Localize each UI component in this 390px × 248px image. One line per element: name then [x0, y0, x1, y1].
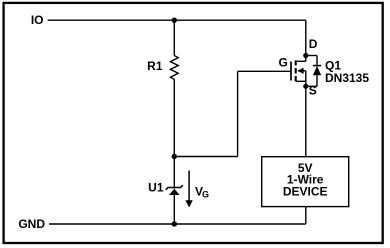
junction dot GND/U1: [172, 221, 177, 226]
body diode cathode lead: [316, 56, 318, 66]
svg-text:G: G: [279, 56, 288, 70]
substrate arrow line: [298, 70, 306, 72]
substrate arrowhead: [297, 68, 303, 74]
body diode branch bottom wire: [306, 85, 317, 87]
drain internal connection: [296, 60, 306, 62]
svg-text:S: S: [309, 84, 317, 98]
node D dot: [303, 53, 308, 58]
wire gate to node: [174, 156, 237, 158]
VG arrow line: [188, 171, 190, 202]
wire drain lead from IO rail: [305, 20, 307, 61]
svg-text:D: D: [309, 37, 318, 51]
junction dot gate node: [172, 154, 177, 159]
zener U1 top lead: [173, 157, 175, 189]
zener U1 cathode bar: [166, 185, 183, 190]
body diode anode lead: [316, 75, 318, 86]
wire GND rail: [49, 223, 306, 225]
svg-text:G: G: [202, 189, 209, 199]
wire source to device box: [305, 86, 307, 156]
channel segment bottom: [295, 76, 297, 81]
svg-text:R1: R1: [147, 59, 163, 73]
VG arrowhead: [185, 200, 192, 207]
zener U1 bottom lead: [173, 195, 175, 224]
resistor R1: [170, 56, 178, 80]
body diode triangle: [313, 66, 321, 75]
5V 1-Wire DEVICE box: [262, 157, 349, 207]
wire gate lead: [238, 70, 291, 72]
channel segment top: [295, 60, 297, 65]
wire R1 top lead: [173, 20, 175, 55]
body diode cathode bar: [313, 65, 321, 67]
gate plate: [290, 62, 292, 81]
junction dot IO/R1: [172, 18, 177, 23]
wire IO rail: [48, 19, 306, 21]
svg-text:DEVICE: DEVICE: [283, 185, 328, 199]
transistor Q1 MOSFET body: [291, 60, 306, 86]
node S dot: [303, 84, 308, 89]
svg-text:GND: GND: [18, 217, 45, 231]
source internal connection: [296, 80, 306, 82]
channel segment middle: [295, 68, 297, 74]
wire device box to GND: [305, 207, 307, 224]
zener U1 triangle: [169, 189, 180, 195]
svg-text:IO: IO: [31, 13, 44, 27]
wire R1 bottom lead: [173, 79, 175, 156]
body diode branch top wire: [306, 55, 317, 57]
svg-text:DN3135: DN3135: [325, 71, 369, 85]
source vertical to S node: [305, 71, 307, 87]
svg-text:U1: U1: [148, 181, 164, 195]
wire gate vertical: [237, 71, 239, 156]
